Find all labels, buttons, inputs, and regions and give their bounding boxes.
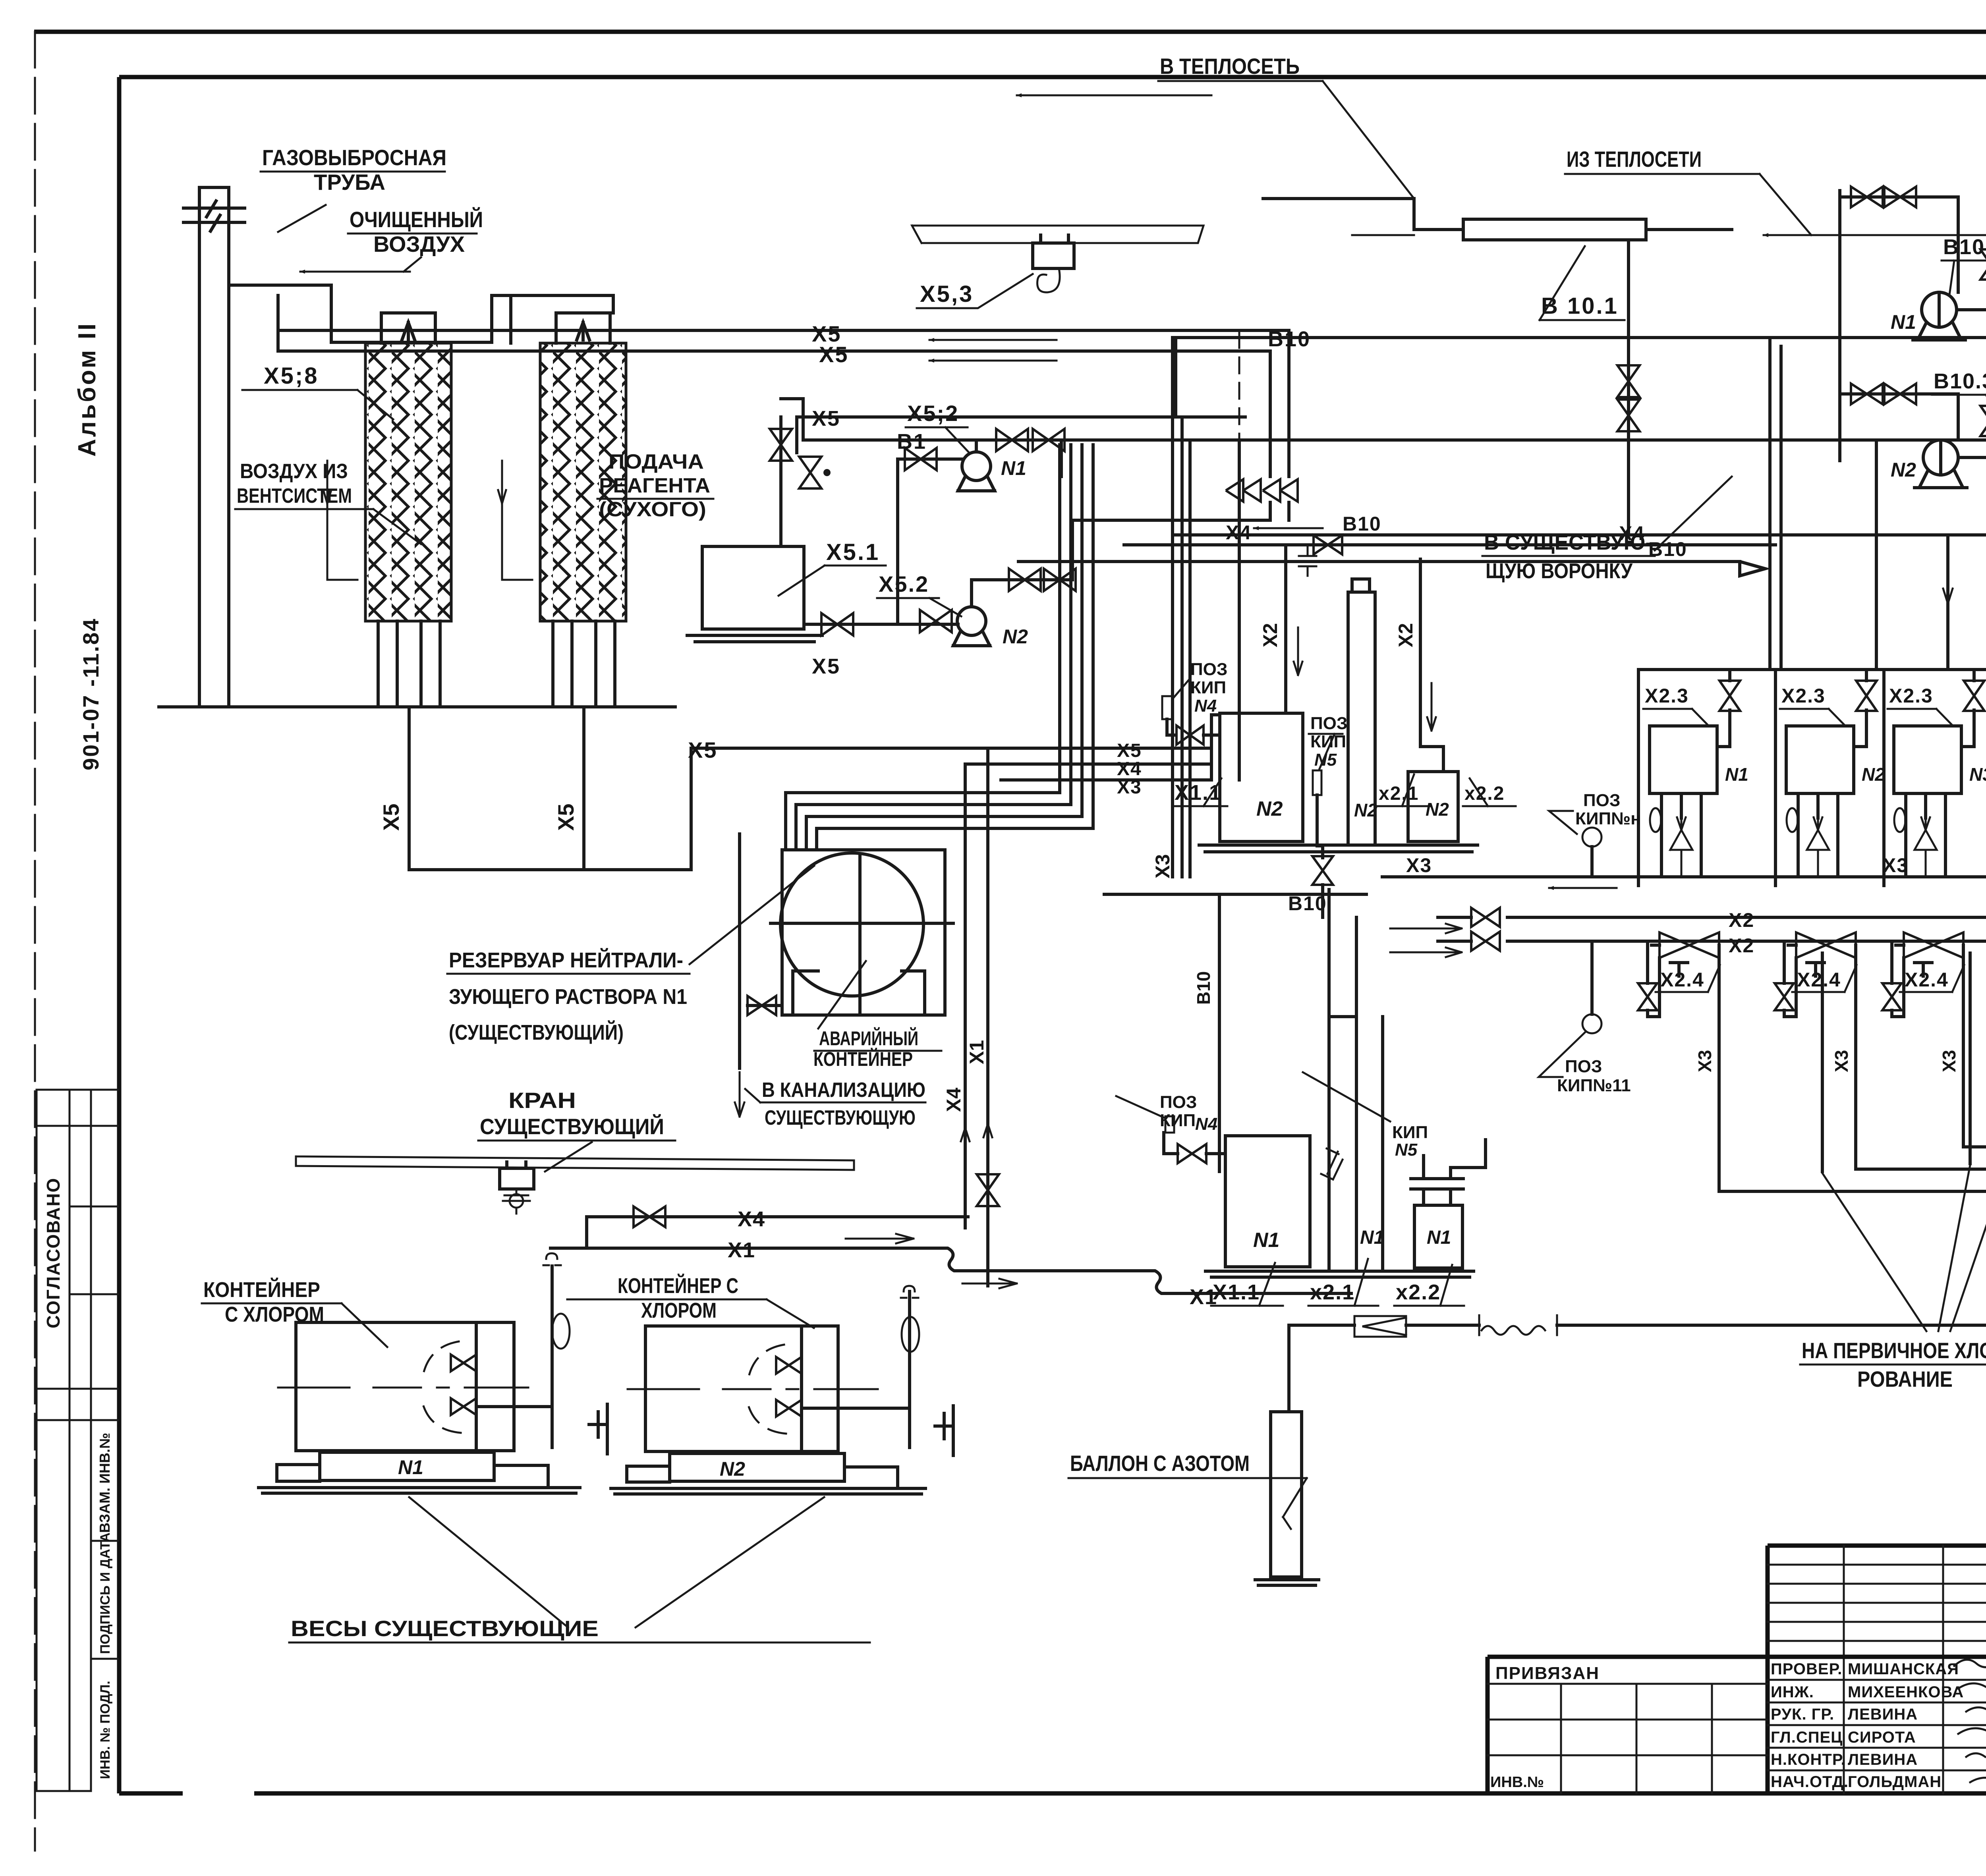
- pump X5.2 N1: [962, 452, 991, 481]
- svg-text:X2: X2: [1729, 934, 1754, 957]
- valves on X5 risers: [1263, 479, 1298, 502]
- svg-text:x2.1: x2.1: [1310, 1280, 1355, 1304]
- svg-text:В ТЕПЛОСЕТЬ: В ТЕПЛОСЕТЬ: [1160, 54, 1300, 79]
- svg-text:X3: X3: [1151, 854, 1174, 878]
- X5 risers below scrubbers to header: [409, 707, 691, 870]
- ground hatch: [1206, 1271, 1474, 1277]
- svg-text:X2.4: X2.4: [1797, 969, 1841, 991]
- pump N2: [1923, 440, 1958, 475]
- svg-text:X5,3: X5,3: [920, 281, 974, 307]
- dashed riser near x3120: [1238, 332, 1240, 440]
- margin tables: [37, 1090, 118, 1791]
- svg-text:X2.3: X2.3: [1645, 685, 1689, 707]
- svg-text:N5: N5: [1395, 1140, 1418, 1160]
- svg-text:ЛЕВИНА: ЛЕВИНА: [1848, 1751, 1918, 1768]
- svg-text:ВЗАМ. ИНВ.№: ВЗАМ. ИНВ.№: [97, 1433, 113, 1533]
- svg-text:X1: X1: [966, 1040, 988, 1064]
- svg-text:X3: X3: [1939, 1050, 1959, 1072]
- svg-text:N1: N1: [1725, 764, 1748, 785]
- svg-text:X1.1: X1.1: [1213, 1280, 1260, 1304]
- drains staircase to arrows: [1719, 1033, 1986, 1191]
- B1 line across the sheet: [803, 438, 1986, 442]
- unit template repeated: [1638, 670, 1748, 1033]
- svg-text:СОГЛАСОВАНО: СОГЛАСОВАНО: [43, 1177, 64, 1328]
- svg-text:N2: N2: [1256, 797, 1283, 820]
- svg-text:КОНТЕЙНЕР С: КОНТЕЙНЕР С: [618, 1274, 738, 1298]
- svg-text:N1: N1: [1427, 1227, 1451, 1248]
- svg-text:ГОЛЬДМАН: ГОЛЬДМАН: [1848, 1773, 1942, 1791]
- svg-text:РОВАНИЕ: РОВАНИЕ: [1857, 1366, 1953, 1392]
- svg-text:КИП№11: КИП№11: [1557, 1076, 1631, 1095]
- svg-text:X3: X3: [1883, 854, 1909, 876]
- gas exhaust stack (two verticals with break marks): [199, 187, 229, 707]
- monorail with hoist X5,3: [912, 226, 1204, 243]
- svg-text:ТРУБА: ТРУБА: [314, 170, 385, 195]
- staff table columns: [1844, 1546, 1986, 1793]
- svg-text:СУЩЕСТВУЮЩИЙ: СУЩЕСТВУЮЩИЙ: [480, 1114, 664, 1139]
- svg-text:X5: X5: [379, 804, 404, 831]
- svg-text:N2: N2: [1354, 800, 1377, 820]
- outer border top: [34, 30, 1986, 34]
- X5 line at y1050: [797, 415, 1245, 419]
- riser with two valves into X5.1: [781, 417, 797, 546]
- svg-text:РУК. ГР.: РУК. ГР.: [1771, 1706, 1834, 1723]
- svg-text:ПОДПИСЬ И ДАТА: ПОДПИСЬ И ДАТА: [98, 1532, 113, 1654]
- bundle to the right: X5 X4 X3: [965, 748, 1211, 780]
- pump X5.2 N2: [957, 607, 986, 635]
- svg-text:X5: X5: [812, 654, 840, 678]
- svg-text:С ХЛОРОМ: С ХЛОРОМ: [225, 1303, 324, 1326]
- handwheel stand: [589, 1404, 607, 1454]
- svg-text:N1: N1: [1891, 311, 1916, 333]
- svg-text:ВЕНТСИСТЕМ: ВЕНТСИСТЕМ: [237, 484, 352, 508]
- valve into big tank: [1178, 1144, 1206, 1163]
- svg-text:ПРИВЯЗАН: ПРИВЯЗАН: [1495, 1664, 1600, 1683]
- svg-text:В10: В10: [1343, 513, 1381, 535]
- svg-text:ИЗ ТЕПЛОСЕТИ: ИЗ ТЕПЛОСЕТИ: [1567, 147, 1702, 172]
- svg-text:ОЧИЩЕННЫЙ: ОЧИЩЕННЫЙ: [350, 207, 483, 232]
- svg-text:x2.1: x2.1: [1379, 783, 1419, 804]
- pump N1: [1922, 292, 1957, 327]
- svg-text:X5: X5: [553, 804, 578, 831]
- svg-text:N2: N2: [1862, 764, 1885, 785]
- big tank N1: [1225, 1136, 1310, 1267]
- svg-text:СУЩЕСТВУЮЩУЮ: СУЩЕСТВУЮЩУЮ: [765, 1106, 916, 1129]
- signatures (squiggles): [1954, 1660, 1986, 1782]
- svg-text:N2: N2: [1426, 799, 1449, 820]
- reducer: [1354, 1316, 1406, 1337]
- svg-text:X2.4: X2.4: [1660, 969, 1704, 991]
- container 2: [611, 1317, 953, 1494]
- svg-text:X5: X5: [819, 342, 849, 367]
- scrubber column 1: [365, 313, 451, 707]
- svg-text:СИРОТА: СИРОТА: [1848, 1729, 1916, 1746]
- svg-text:901-07 -11.84: 901-07 -11.84: [78, 618, 103, 770]
- feed pipe dropping into reservoir from X5: [968, 747, 971, 750]
- svg-text:В10: В10: [1268, 327, 1311, 351]
- container 1: [259, 1314, 607, 1493]
- svg-text:ЗУЮЩЕГО РАСТВОРА N1: ЗУЮЩЕГО РАСТВОРА N1: [449, 985, 687, 1009]
- svg-text:ПОЗ: ПОЗ: [1190, 660, 1227, 679]
- svg-text:КИП: КИП: [1160, 1111, 1196, 1130]
- connection caps to duct: [511, 295, 613, 343]
- svg-text:N1: N1: [398, 1456, 423, 1478]
- KIP instruments on manifold: [1582, 828, 1602, 847]
- svg-text:X2.3: X2.3: [1889, 685, 1933, 707]
- svg-text:N2: N2: [1003, 625, 1028, 648]
- svg-text:Н.КОНТР.: Н.КОНТР.: [1771, 1751, 1846, 1768]
- svg-text:N4: N4: [1195, 1114, 1217, 1134]
- KIP N4 upper: [1162, 696, 1172, 719]
- HX drain with valves: [1627, 240, 1630, 535]
- svg-text:ГЛ.СПЕЦ: ГЛ.СПЕЦ: [1771, 1729, 1843, 1746]
- svg-text:X2: X2: [1259, 623, 1281, 647]
- svg-text:N3: N3: [1969, 764, 1986, 785]
- pump discharges with valve pairs: [976, 440, 1061, 452]
- svg-text:НА ПЕРВИЧНОЕ ХЛОРИ-: НА ПЕРВИЧНОЕ ХЛОРИ-: [1802, 1338, 1986, 1363]
- X4 riser: [964, 764, 967, 1228]
- svg-text:ЛЕВИНА: ЛЕВИНА: [1848, 1706, 1918, 1723]
- header: [1638, 668, 1986, 671]
- svg-text:N1: N1: [1253, 1229, 1279, 1252]
- svg-text:X2: X2: [1395, 623, 1417, 647]
- narrow tall tank upper: [1348, 592, 1375, 845]
- X5 line from header up to bundle: [691, 748, 969, 870]
- X3 manifold: [1382, 875, 1986, 878]
- svg-text:ПОЗ: ПОЗ: [1310, 714, 1347, 733]
- svg-text:X5.1: X5.1: [826, 539, 880, 565]
- Привязан box: [1488, 1657, 1768, 1793]
- ground: [259, 1488, 580, 1493]
- scrubber column 2: [540, 313, 626, 707]
- flexible hose symbol: [1479, 1315, 1557, 1335]
- svg-text:ВЕСЫ СУЩЕСТВУЮЩИЕ: ВЕСЫ СУЩЕСТВУЮЩИЕ: [291, 1616, 599, 1641]
- svg-text:(СУЩЕСТВУЮЩИЙ): (СУЩЕСТВУЮЩИЙ): [449, 1020, 624, 1044]
- svg-text:X3: X3: [1694, 1050, 1715, 1072]
- svg-text:МИХЕЕНКОВА: МИХЕЕНКОВА: [1848, 1683, 1964, 1701]
- feed vertical: [1840, 191, 1958, 461]
- pipe beside narrow tank: [1381, 1017, 1384, 1270]
- narrow tall tank: [1329, 1017, 1356, 1270]
- outer border left (thin): [34, 32, 36, 1851]
- svg-text:N1: N1: [1360, 1227, 1384, 1248]
- X2 manifold pair: [1507, 917, 1986, 941]
- oval flange on riser: [552, 1314, 570, 1349]
- svg-text:Альбом II: Альбом II: [73, 322, 101, 457]
- valve right of X5.1 on outlet: [804, 623, 958, 626]
- svg-text:МИШАНСКАЯ: МИШАНСКАЯ: [1848, 1660, 1959, 1678]
- capacitor symbols above small tank: [1411, 1179, 1463, 1189]
- На первичное хлорирование: [1822, 953, 1986, 1172]
- svg-text:ХЛОРОМ: ХЛОРОМ: [641, 1299, 717, 1322]
- svg-text:X5.2: X5.2: [879, 571, 929, 596]
- svg-text:X5;8: X5;8: [264, 363, 319, 389]
- cell dividers: [1638, 670, 1986, 886]
- container2 riser hook: [908, 1291, 911, 1448]
- svg-text:(СУХОГО): (СУХОГО): [599, 498, 706, 521]
- svg-text:N1: N1: [1001, 457, 1026, 479]
- svg-text:ПРОВЕР.: ПРОВЕР.: [1771, 1660, 1842, 1678]
- svg-text:В1: В1: [897, 430, 927, 454]
- ground hatch upper row: [1199, 845, 1478, 852]
- staff table rows (upper empty rows): [1768, 1565, 1986, 1641]
- central drain verticals: [1173, 338, 1190, 877]
- канализация drop with arrow: [738, 834, 741, 1068]
- svg-text:X3: X3: [1831, 1050, 1852, 1072]
- svg-text:X4: X4: [1226, 521, 1252, 544]
- svg-text:АВАРИЙНЫЙ: АВАРИЙНЫЙ: [819, 1027, 918, 1050]
- svg-text:x2.2: x2.2: [1396, 1280, 1441, 1304]
- X5.1 tank: [702, 546, 804, 629]
- B10 upper line: [1176, 336, 1986, 339]
- outer box of staff table: [1768, 1546, 1986, 1793]
- crane trolley and hook: [500, 1162, 534, 1189]
- svg-text:В КАНАЛИЗАЦИЮ: В КАНАЛИЗАЦИЮ: [762, 1079, 925, 1102]
- svg-text:КИП: КИП: [1392, 1123, 1428, 1142]
- inlet arrows into columns: [323, 461, 331, 504]
- svg-text:В10.1: В10.1: [1943, 235, 1986, 259]
- svg-text:X1: X1: [728, 1238, 755, 1262]
- svg-text:ПОЗ: ПОЗ: [1565, 1057, 1602, 1076]
- B10 down line: [1104, 894, 1366, 1172]
- svg-text:В10: В10: [1193, 971, 1214, 1005]
- svg-text:X2.4: X2.4: [1905, 969, 1949, 991]
- valve left of reservoir: [748, 996, 776, 1015]
- small tank N1: [1414, 1205, 1462, 1268]
- svg-text:ПОЗ: ПОЗ: [1160, 1092, 1197, 1112]
- platform: [277, 1452, 494, 1481]
- svg-text:РЕАГЕНТА: РЕАГЕНТА: [599, 474, 710, 497]
- discharge piping to tank: [1957, 222, 1986, 457]
- X4 line: [587, 1217, 968, 1248]
- svg-text:КИП: КИП: [1190, 678, 1226, 697]
- X5 double lines from scrubbers to right: [278, 330, 1289, 477]
- svg-text:X3: X3: [1406, 854, 1432, 876]
- staff names: [1771, 1660, 1964, 1791]
- svg-text:КРАН: КРАН: [508, 1088, 576, 1113]
- svg-text:РЕЗЕРВУАР НЕЙТРАЛИ-: РЕЗЕРВУАР НЕЙТРАЛИ-: [449, 948, 683, 972]
- svg-text:ИНЖ.: ИНЖ.: [1771, 1683, 1814, 1701]
- B10 middle long line: [1176, 533, 1986, 537]
- svg-text:X3: X3: [1117, 777, 1142, 798]
- svg-text:НАЧ.ОТД.: НАЧ.ОТД.: [1771, 1773, 1849, 1791]
- svg-text:В10.3: В10.3: [1934, 369, 1986, 393]
- X2 risers from upper tanks: [1284, 547, 1287, 713]
- svg-text:N4: N4: [1194, 696, 1217, 716]
- ejector: [1660, 932, 1719, 958]
- svg-text:X2.3: X2.3: [1781, 685, 1826, 707]
- svg-text:N2: N2: [720, 1458, 745, 1480]
- X1 line with jogs: [551, 1248, 1351, 1293]
- svg-text:ПОЗ: ПОЗ: [1583, 791, 1620, 810]
- svg-text:КОНТЕЙНЕР: КОНТЕЙНЕР: [203, 1278, 320, 1302]
- svg-text:ПОДАЧА: ПОДАЧА: [609, 450, 704, 473]
- svg-text:X4: X4: [943, 1088, 965, 1112]
- container1 riser hook from X1: [551, 1266, 554, 1448]
- X1 riser: [986, 748, 989, 1286]
- small tank upper: [1408, 772, 1458, 841]
- KIP N4 lower: [1165, 1116, 1174, 1133]
- svg-text:ИНВ.№: ИНВ.№: [1490, 1774, 1544, 1791]
- units: [1638, 670, 1986, 1033]
- svg-text:X4: X4: [738, 1207, 765, 1231]
- svg-text:В СУЩЕСТВУЮ-: В СУЩЕСТВУЮ-: [1484, 531, 1652, 554]
- svg-text:N2: N2: [1891, 459, 1916, 481]
- svg-text:БАЛЛОН С АЗОТОМ: БАЛЛОН С АЗОТОМ: [1070, 1451, 1250, 1476]
- B10 arrow line: [1017, 562, 1765, 576]
- arrow: очищенный воздух flow: [300, 271, 410, 273]
- svg-text:ИНВ. № ПОДЛ.: ИНВ. № ПОДЛ.: [98, 1681, 113, 1779]
- big tank N2: [1220, 713, 1303, 841]
- svg-text:X5: X5: [812, 407, 840, 430]
- X4 arrow line upper: [1124, 543, 1775, 546]
- svg-text:КИП№н: КИП№н: [1575, 809, 1641, 828]
- duct from stack to scrubbers: [229, 285, 613, 342]
- svg-text:В10: В10: [1648, 538, 1687, 560]
- svg-text:ВОЗДУХ ИЗ: ВОЗДУХ ИЗ: [240, 460, 348, 483]
- svg-text:X5: X5: [688, 737, 718, 762]
- valve pairs: [1851, 187, 1883, 207]
- svg-text:X5;2: X5;2: [907, 401, 959, 426]
- svg-text:ГАЗОВЫБРОСНАЯ: ГАЗОВЫБРОСНАЯ: [262, 145, 446, 170]
- ground line under scrubbers: [159, 705, 675, 708]
- svg-text:X2: X2: [1729, 909, 1754, 931]
- svg-text:ЩУЮ ВОРОНКУ: ЩУЮ ВОРОНКУ: [1486, 559, 1633, 583]
- svg-text:ВОЗДУХ: ВОЗДУХ: [373, 232, 465, 257]
- svg-text:X1.1: X1.1: [1175, 781, 1222, 805]
